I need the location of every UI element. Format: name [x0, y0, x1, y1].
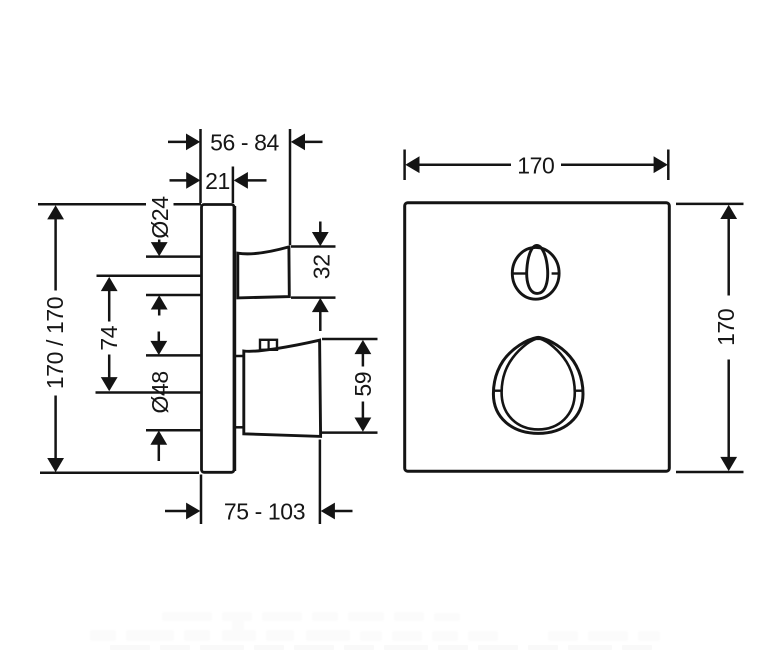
escutcheon plate (side view)	[202, 205, 235, 473]
svg-text:170: 170	[713, 309, 739, 346]
dimension 170/170 overall height	[38, 204, 201, 472]
dimension Ø48	[146, 332, 201, 462]
svg-text:Ø24: Ø24	[147, 196, 173, 239]
dimension 74	[96, 276, 201, 393]
faint watermark dash row	[110, 645, 652, 650]
svg-text:59: 59	[350, 372, 376, 397]
dimension 21	[170, 167, 267, 204]
svg-text:74: 74	[96, 325, 122, 350]
svg-text:Ø48: Ø48	[147, 371, 173, 413]
svg-text:56 - 84: 56 - 84	[210, 130, 279, 156]
dimension 170 height (front view)	[676, 204, 744, 472]
dimension 56-84	[168, 129, 323, 245]
svg-text:170 / 170: 170 / 170	[42, 297, 68, 389]
wall plate (front view)	[405, 203, 670, 471]
svg-text:75 - 103: 75 - 103	[224, 499, 305, 525]
dimension 170 width (front view)	[405, 150, 669, 181]
svg-text:170: 170	[517, 152, 554, 178]
dimension Ø24	[146, 240, 201, 316]
faint watermark text lines	[90, 612, 660, 641]
svg-text:32: 32	[309, 254, 335, 279]
shut-off/volume handle (front view)	[493, 337, 583, 433]
dimension 59	[322, 339, 378, 433]
dimension 75-103	[165, 440, 353, 525]
safety-stop button on shut-off handle (side view)	[260, 340, 277, 350]
shut-off handle (side view)	[236, 340, 321, 436]
thermostat knob (side view)	[238, 247, 289, 298]
svg-text:21: 21	[205, 168, 230, 194]
dimension 32	[291, 222, 336, 332]
thermostat handle (front view)	[512, 245, 560, 299]
